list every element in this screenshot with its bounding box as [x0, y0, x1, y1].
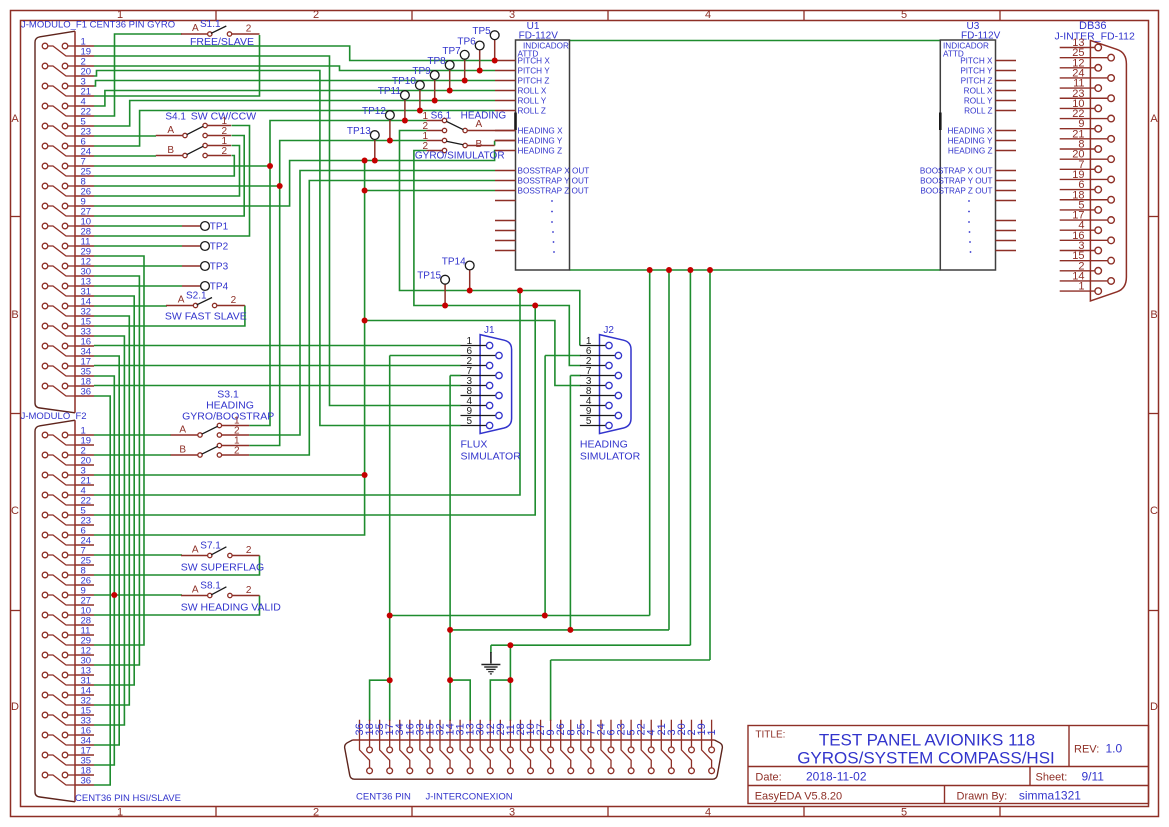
junction H1 left — [387, 613, 393, 619]
junction F1.8 node — [277, 183, 283, 189]
connector J-INTERCONEXION hood — [345, 740, 723, 779]
junction TP11 net120 — [402, 118, 408, 124]
title block frame — [748, 726, 1149, 804]
wire F1.21 to S1.1 pin2 — [94, 35, 260, 96]
J1 pin 6 — [461, 355, 496, 357]
wire rail drop 2 — [668, 270, 670, 630]
svg-text:B: B — [167, 145, 174, 156]
switch S4.1 SW CW/CCW pole A — [183, 133, 187, 137]
wire J2.6 — [545, 355, 580, 357]
svg-text:4: 4 — [705, 9, 711, 21]
svg-text:36: 36 — [81, 776, 92, 787]
junction F2.4 net290 — [517, 288, 523, 294]
J2 pin 7 — [580, 375, 615, 377]
F2 pins 9/27 — [42, 592, 48, 598]
J-INTERCONEXION pin 23 — [621, 720, 631, 768]
wire U1-U3 bottom rail — [570, 269, 941, 271]
J-INTERCONEXION pin 9 — [550, 720, 552, 747]
F1 pins 6/24 — [42, 143, 48, 149]
test point TP11 — [404, 100, 406, 121]
wire F2.8 to S7.1 pin2 — [94, 556, 260, 576]
junction net160 riser — [362, 158, 368, 164]
svg-text:2: 2 — [313, 9, 319, 21]
F1 pins 12/30 — [42, 263, 48, 269]
switch S8.1 SW HEADING VALID — [181, 595, 208, 597]
svg-text:FREE/SLAVE: FREE/SLAVE — [190, 36, 254, 48]
wire F1.26 to S4.1 B1 — [94, 146, 240, 197]
test point TP5 — [494, 40, 496, 61]
svg-text:2: 2 — [231, 295, 237, 306]
F2 pins 2/20 — [42, 452, 48, 458]
svg-text:HEADING Y: HEADING Y — [948, 137, 993, 146]
wire F1.25 to S4.1 B2 — [94, 156, 234, 177]
F1 pins 4/22 — [42, 103, 48, 109]
junction pin11 jog — [507, 677, 513, 683]
J-INTERCONEXION pin 8 — [570, 720, 572, 747]
DB36 pin 14 — [1060, 280, 1108, 282]
F2 pins 4/22 — [42, 492, 48, 498]
F1 pins 14/32 — [42, 303, 48, 309]
F1 pins 5/23 — [42, 123, 48, 129]
F2 pins 5/23 — [42, 512, 48, 518]
J-INTERCONEXION pin 25 — [581, 720, 591, 768]
svg-text:A: A — [476, 119, 483, 130]
U1 hidden pin mark — [514, 113, 517, 131]
J2 pin 1 — [580, 345, 606, 347]
wire net HEADING-Z vertical — [94, 161, 365, 536]
svg-text:PITCH Y: PITCH Y — [960, 67, 993, 76]
test point TP6 — [479, 50, 481, 71]
svg-text:ROLL X: ROLL X — [518, 87, 547, 96]
svg-text:ROLL Y: ROLL Y — [518, 97, 547, 106]
J2 pin 6 — [580, 355, 615, 357]
junction F1.7 node — [267, 163, 273, 169]
svg-text:Date:: Date: — [755, 772, 781, 784]
DB36 pin 11 — [1060, 87, 1095, 89]
svg-text:PITCH Z: PITCH Z — [961, 77, 993, 86]
svg-text:S2.1: S2.1 — [186, 291, 207, 302]
svg-text:SIMULATOR: SIMULATOR — [580, 451, 641, 463]
J1 pin 8 — [461, 395, 496, 397]
F1 pins 16/34 — [42, 343, 48, 349]
test point TP1 — [182, 225, 201, 227]
svg-text:B: B — [1150, 309, 1157, 321]
J-INTERCONEXION pin 6 — [610, 720, 612, 747]
junction pin14 jog — [447, 677, 453, 683]
svg-text:TP4: TP4 — [210, 282, 229, 293]
wire F1.5 to U1 ROLL Y — [94, 101, 495, 127]
wire rail drop 1 — [649, 270, 651, 616]
J2 pin 5 — [580, 425, 606, 427]
J-INTERCONEXION pin 11 — [509, 720, 511, 747]
test point TP7 — [464, 59, 466, 80]
wire ground stub — [490, 645, 492, 653]
wire F1.34 to F2.34 — [94, 356, 119, 745]
wire net TP11 S6.1-A1 to F1.7 — [249, 121, 426, 426]
svg-text:C: C — [1150, 505, 1158, 517]
wire J2.7 — [570, 375, 580, 377]
switch S6.1 HEADING pole A — [442, 118, 446, 122]
J-INTERCONEXION pin 24 — [601, 720, 611, 768]
J1 pin 1 — [461, 345, 487, 347]
DB36 pin 1 — [1060, 290, 1095, 292]
wire bus H3 ground rail — [491, 644, 691, 646]
wire JINT pin12 jog — [490, 680, 510, 721]
svg-text:SW SUPERFLAG: SW SUPERFLAG — [181, 562, 264, 574]
svg-text:SW FAST SLAVE: SW FAST SLAVE — [165, 311, 247, 323]
wire F1.14 to S2.1 pinA — [94, 305, 167, 307]
junction net320 riser — [362, 318, 368, 324]
DB36 pin 3 — [1060, 250, 1095, 252]
J-INTERCONEXION pin 2 — [690, 720, 692, 747]
J-INTERCONEXION pin 22 — [641, 720, 651, 768]
svg-text:TP14: TP14 — [442, 257, 466, 268]
DB36 pin 5 — [1060, 209, 1095, 211]
J-INTERCONEXION pin 14 — [449, 720, 451, 747]
F1 pins 2/20 — [42, 63, 48, 69]
svg-text:3: 3 — [509, 9, 515, 21]
junction H1 J2.6 — [542, 613, 548, 619]
wire J1.6 riser — [389, 356, 391, 681]
svg-text:5: 5 — [901, 9, 907, 21]
svg-text:SW HEADING VALID: SW HEADING VALID — [181, 602, 282, 614]
svg-text:D: D — [1150, 701, 1158, 713]
wire F1.4 to U1 ROLL X — [94, 91, 495, 107]
test point TP3 — [182, 265, 201, 267]
J-INTERCONEXION pin 7 — [590, 720, 592, 747]
F1 pins 7/25 — [42, 163, 48, 169]
svg-text:4: 4 — [705, 806, 711, 818]
DB36 pin 21 — [1060, 138, 1108, 140]
wire F1.24 to S4.1 B common — [94, 155, 156, 157]
F2 pins 10/28 — [42, 612, 48, 618]
J2 pin 9 — [580, 415, 615, 417]
J1 pin 5 — [461, 425, 487, 427]
svg-text:2: 2 — [246, 545, 252, 556]
wire J1.7 riser — [449, 376, 451, 681]
switch S2.1 SW FAST SLAVE — [166, 305, 193, 307]
wire F2.5 to HEADING-Y net — [94, 306, 535, 516]
DB36 pin 23 — [1060, 97, 1108, 99]
test point TP13 — [374, 140, 376, 161]
svg-text:ROLL Y: ROLL Y — [964, 97, 993, 106]
svg-text:BOOSTRAP X OUT: BOOSTRAP X OUT — [920, 167, 993, 176]
svg-text:D: D — [11, 701, 19, 713]
J-INTERCONEXION pin 16 — [409, 720, 411, 747]
wire F1.11 to TP2 — [94, 245, 182, 247]
wire F1.28 to S4.1 A1 — [94, 126, 250, 237]
svg-text:2: 2 — [234, 446, 240, 457]
svg-text:9/11: 9/11 — [1082, 770, 1105, 784]
svg-text:S7.1: S7.1 — [200, 541, 221, 552]
test point TP15 — [444, 284, 446, 305]
op-amp U3 FD-112V body — [940, 40, 995, 270]
J-INTERCONEXION pin 15 — [429, 720, 431, 747]
svg-text:simma1321: simma1321 — [1019, 789, 1081, 803]
test point TP10 — [419, 90, 421, 111]
wire J2.6 riser — [544, 356, 546, 616]
junction rail drop2 — [666, 267, 672, 273]
junction rail drop1 — [647, 267, 653, 273]
svg-text:5: 5 — [901, 806, 907, 818]
J-INTERCONEXION pin 26 — [561, 720, 571, 768]
svg-text:36: 36 — [81, 387, 92, 398]
J-INTERCONEXION pin 33 — [420, 720, 430, 768]
F1 pins 10/28 — [42, 223, 48, 229]
wire F1.20 to J1.5 — [94, 71, 461, 426]
test point TP12 — [389, 120, 391, 141]
svg-text:S4.1: S4.1 — [165, 112, 186, 123]
svg-text:PITCH Y: PITCH Y — [518, 67, 551, 76]
F1 pins 17/35 — [42, 363, 48, 369]
svg-text:2: 2 — [246, 585, 252, 596]
svg-text:FLUX: FLUX — [461, 439, 488, 451]
J-INTERCONEXION pin 32 — [440, 720, 450, 768]
J-INTERCONEXION pin 10 — [530, 720, 532, 747]
svg-text:PITCH X: PITCH X — [518, 57, 551, 66]
J-INTERCONEXION pin 21 — [661, 720, 671, 768]
svg-text:J-INTERCONEXION: J-INTERCONEXION — [426, 792, 513, 803]
J-INTERCONEXION pin 17 — [389, 720, 391, 747]
wire JINT pin14 drop — [449, 680, 451, 721]
F2 pins 3/21 — [42, 472, 48, 478]
svg-text:HEADING X: HEADING X — [518, 127, 564, 136]
F2 pins 12/30 — [42, 652, 48, 658]
svg-text:A: A — [167, 125, 174, 136]
svg-text:ROLL Z: ROLL Z — [518, 107, 546, 116]
F1 pins 1/19 — [42, 43, 48, 49]
switch S3.1 pole B — [198, 453, 202, 457]
svg-text:J-MODULO_F1 CENT36 PIN GYRO: J-MODULO_F1 CENT36 PIN GYRO — [21, 20, 175, 31]
svg-text:HEADING Z: HEADING Z — [948, 147, 993, 156]
wire F1.23 to S4.1 A common — [94, 135, 156, 137]
svg-text:1: 1 — [706, 729, 718, 735]
F2 pins 6/24 — [42, 532, 48, 538]
connector J1 body — [480, 335, 512, 434]
J2 pin 2 — [580, 365, 606, 367]
wire F1.16 to J1.1 — [94, 345, 461, 347]
svg-text:HEADING Z: HEADING Z — [518, 147, 563, 156]
F1 pins 15/33 — [42, 323, 48, 329]
F2 pins 7/25 — [42, 552, 48, 558]
wire JINT pin13 jog — [450, 680, 470, 721]
svg-text:A: A — [192, 585, 199, 596]
svg-text:CENT36 PIN: CENT36 PIN — [356, 792, 411, 803]
DB36 pin 17 — [1060, 219, 1108, 221]
wire rail drop 3 — [689, 270, 691, 645]
svg-text:TP12: TP12 — [362, 106, 386, 117]
svg-text:5: 5 — [467, 416, 473, 427]
wire F2.10 to S8.1 pin2 — [94, 596, 260, 616]
J1 pin 2 — [461, 365, 487, 367]
svg-text:2018-11-02: 2018-11-02 — [806, 770, 867, 784]
svg-text:J-INTER_FD-112: J-INTER_FD-112 — [1055, 31, 1135, 43]
wire F1.7 node — [94, 165, 270, 167]
svg-text:SIMULATOR: SIMULATOR — [461, 451, 522, 463]
J-INTERCONEXION pin 28 — [520, 720, 530, 768]
svg-text:FD-112V: FD-112V — [961, 31, 1001, 42]
wire F1.30 to F2.30 — [94, 276, 139, 665]
wire net HEADING-Y S6.1-B2 TP15 to J2.2 — [414, 151, 581, 366]
switch S1.1 FREE/SLAVE — [181, 33, 208, 35]
svg-text:PITCH Z: PITCH Z — [518, 77, 550, 86]
wire F1.27 to S4.1 A2 — [94, 136, 244, 217]
DB36 pin 12 — [1060, 67, 1095, 69]
F1 pins 8/26 — [42, 183, 48, 189]
wire net TP12 S6.1-B1 to F1.8 — [249, 141, 426, 446]
svg-text:B: B — [11, 309, 18, 321]
svg-text:3: 3 — [509, 806, 515, 818]
svg-text:ROLL X: ROLL X — [964, 87, 993, 96]
J-INTERCONEXION pin 35 — [380, 720, 390, 768]
test point TP2 — [182, 245, 201, 247]
svg-text:TP15: TP15 — [417, 271, 441, 282]
junction TP7 PITCH Z — [462, 78, 468, 84]
wire F1.9 to U1 HEADING Z — [94, 151, 496, 207]
junction rail drop3 — [687, 267, 693, 273]
DB36 pin 15 — [1060, 260, 1108, 262]
J-INTERCONEXION pin 12 — [489, 720, 491, 747]
J2 pin 8 — [580, 395, 615, 397]
wire net HEADING-X S6.1-A2 TP14 to J2.1 — [400, 131, 580, 346]
svg-text:TEST PANEL AVIONIKS 118: TEST PANEL AVIONIKS 118 — [819, 731, 1035, 750]
wire F1.18 to J1.3 — [94, 385, 461, 387]
connector J2 body — [600, 335, 632, 434]
wire F1.35 to F2.35 — [94, 376, 114, 765]
J-INTERCONEXION pin 4 — [650, 720, 652, 747]
svg-text:Sheet:: Sheet: — [1036, 772, 1068, 784]
svg-text:HEADING Y: HEADING Y — [518, 137, 563, 146]
J-INTERCONEXION pin 19 — [702, 720, 712, 768]
wire F2.2 to S3.1 B common — [94, 454, 171, 456]
junction BOSSTRAP Z riser — [362, 188, 368, 194]
J-INTERCONEXION pin 30 — [480, 720, 490, 768]
wire F1.33 to F2.33 — [94, 336, 124, 725]
ground — [490, 652, 492, 664]
wire F1.15 to S2.1 pin2 — [94, 306, 245, 327]
wire F1.8 node — [94, 185, 280, 187]
svg-text:C: C — [11, 505, 19, 517]
wire bus H1 — [390, 615, 650, 617]
DB36 pin 13 — [1060, 47, 1095, 49]
svg-text:BOSSTRAP Y OUT: BOSSTRAP Y OUT — [518, 177, 589, 186]
svg-text:TP11: TP11 — [378, 86, 402, 97]
svg-text:A: A — [178, 295, 185, 306]
svg-text:FD-112V: FD-112V — [519, 31, 559, 42]
wire F1.29 to F2.29 — [94, 256, 144, 645]
svg-text:J2: J2 — [603, 325, 614, 336]
wire to JINT pin 9 — [551, 659, 710, 661]
wire F2.7 to S7.1 pinA — [94, 554, 182, 556]
wire F2.3 to node — [94, 474, 365, 476]
svg-text:2: 2 — [246, 24, 252, 35]
switch S7.1 SW SUPERFLAG — [181, 555, 208, 557]
svg-text:GYRO/BOOSTRAP: GYRO/BOOSTRAP — [182, 411, 274, 423]
F2 pins 1/19 — [42, 432, 48, 438]
test point TP4 — [182, 285, 201, 287]
F2 pins 16/34 — [42, 732, 48, 738]
wire F1.10 to TP1 — [94, 225, 182, 227]
wire F2.4 to HEADING-X net — [94, 291, 520, 496]
wire F1.19 to J1.4 — [94, 56, 461, 406]
F2 pins 17/35 — [42, 752, 48, 758]
J-INTERCONEXION pin 18 — [369, 720, 371, 747]
wire F1.22 to S1.1 pinA — [94, 34, 182, 116]
junction TP14 net290 — [467, 288, 473, 294]
wire F1.6 to U1 ROLL Z — [94, 111, 495, 147]
svg-text:A: A — [1150, 113, 1158, 125]
DB36 pin 18 — [1060, 199, 1108, 201]
F2 pins 14/32 — [42, 692, 48, 698]
svg-text:J-MODULO_F2: J-MODULO_F2 — [21, 411, 87, 422]
svg-text:B: B — [476, 139, 483, 150]
junction TP6 PITCH Y — [477, 68, 483, 74]
F2 pins 11/29 — [42, 632, 48, 638]
J1 pin 7 — [461, 375, 496, 377]
F1 pins 18/36 — [42, 383, 48, 389]
wire F1.2 to U1 PITCH Y — [94, 66, 495, 71]
wire JINT pin9 drop — [550, 660, 552, 721]
svg-text:A: A — [192, 545, 199, 556]
wire F2.9 to S8.1 pinA — [94, 594, 182, 596]
svg-text:BOOSTRAP Z OUT: BOOSTRAP Z OUT — [920, 187, 992, 196]
svg-text:A: A — [192, 23, 199, 34]
svg-text:BOSSTRAP Z OUT: BOSSTRAP Z OUT — [518, 187, 589, 196]
DB36 pin 9 — [1060, 128, 1095, 130]
J-INTERCONEXION pin 1 — [711, 720, 713, 747]
wire F1.3 to U1 PITCH Z — [94, 81, 495, 87]
svg-text:TITLE:: TITLE: — [755, 730, 785, 741]
F2 pins 8/26 — [42, 572, 48, 578]
svg-text:HEADING: HEADING — [580, 439, 628, 451]
wire F1.1 to U1 PITCH X — [94, 46, 495, 61]
svg-text:1: 1 — [117, 806, 123, 818]
svg-text:GYRO/SIMULATOR: GYRO/SIMULATOR — [415, 151, 505, 162]
connector F2 hood — [35, 420, 75, 802]
op-amp U1 FD-112V body — [516, 40, 570, 270]
J-INTERCONEXION pin 34 — [400, 720, 410, 768]
svg-text:A: A — [11, 113, 19, 125]
svg-text:B: B — [179, 445, 186, 456]
junction TP5 PITCH X — [492, 58, 498, 64]
wire F1.32 to F2.32 — [94, 316, 129, 705]
junction F2.9 F1.35 — [111, 592, 117, 598]
switch S3.1 HEADING GYRO/BOOSTRAP pole A — [198, 433, 202, 437]
J2 pin 4 — [580, 405, 606, 407]
DB36 pin 8 — [1060, 148, 1095, 150]
svg-text:TP1: TP1 — [210, 222, 229, 233]
svg-text:TP13: TP13 — [347, 126, 371, 137]
DB36 pin 4 — [1060, 229, 1095, 231]
junction F2.5 net305 — [532, 303, 538, 309]
wire J1.7 — [450, 375, 460, 377]
wire U1-U3 top rail — [570, 40, 941, 42]
J1 pin 3 — [461, 385, 487, 387]
wire J1.6 — [390, 355, 461, 357]
svg-text:BOOSTRAP Y OUT: BOOSTRAP Y OUT — [920, 177, 992, 186]
svg-text:5: 5 — [586, 416, 592, 427]
svg-text:GYROS/SYSTEM COMPASS/HSI: GYROS/SYSTEM COMPASS/HSI — [797, 749, 1055, 768]
wire F1.17 to J1.2 — [94, 365, 461, 367]
svg-text:S6.1: S6.1 — [431, 111, 452, 122]
switch S6.1 pole B — [442, 138, 446, 142]
J1 pin 4 — [461, 405, 487, 407]
wire F1.13 to TP4 — [94, 285, 182, 287]
junction H2 J2.7 — [567, 627, 573, 633]
U3 hidden pin mark — [939, 113, 942, 131]
wire S6.1 B common jog — [494, 141, 496, 146]
svg-text:Drawn By:: Drawn By: — [957, 791, 1008, 803]
